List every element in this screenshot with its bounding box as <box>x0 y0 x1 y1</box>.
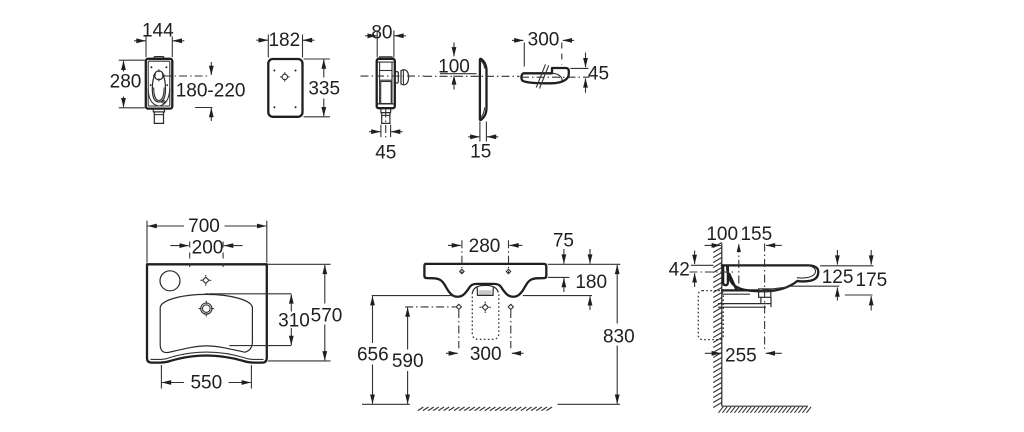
svg-text:180-220: 180-220 <box>176 81 246 102</box>
svg-text:75: 75 <box>553 231 574 252</box>
svg-text:45: 45 <box>375 143 396 164</box>
svg-text:125: 125 <box>822 267 854 288</box>
svg-text:45: 45 <box>588 64 609 85</box>
svg-text:300: 300 <box>528 30 560 51</box>
svg-text:200: 200 <box>192 237 224 258</box>
svg-text:100: 100 <box>438 57 470 78</box>
svg-text:182: 182 <box>268 30 300 51</box>
svg-text:570: 570 <box>311 305 343 326</box>
svg-text:180: 180 <box>575 272 607 293</box>
svg-text:550: 550 <box>190 373 222 394</box>
svg-text:144: 144 <box>142 21 174 42</box>
svg-text:155: 155 <box>740 224 772 245</box>
svg-text:175: 175 <box>856 270 888 291</box>
svg-text:335: 335 <box>308 79 340 100</box>
svg-text:656: 656 <box>357 345 389 366</box>
svg-text:280: 280 <box>110 72 142 93</box>
svg-text:700: 700 <box>188 216 220 237</box>
svg-text:830: 830 <box>603 327 635 348</box>
svg-text:280: 280 <box>469 236 501 257</box>
svg-text:255: 255 <box>725 346 757 367</box>
svg-text:590: 590 <box>392 351 424 372</box>
svg-text:80: 80 <box>371 22 392 43</box>
svg-text:42: 42 <box>669 260 690 281</box>
svg-text:15: 15 <box>470 142 491 163</box>
svg-text:100: 100 <box>706 224 738 245</box>
svg-text:310: 310 <box>278 311 310 332</box>
svg-text:300: 300 <box>470 344 502 365</box>
